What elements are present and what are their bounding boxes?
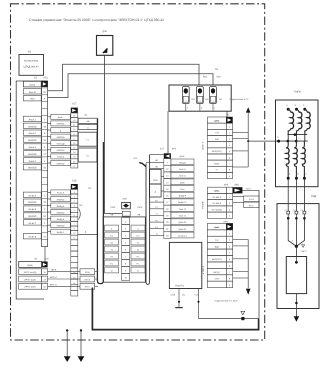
svg-text:ВДЛ: ВДЛ	[215, 245, 220, 248]
svg-text:220V: 220V	[110, 206, 116, 209]
svg-text:ПЭД: ПЭД	[311, 195, 317, 198]
svg-text:Цепь: Цепь	[214, 119, 220, 122]
svg-text:Ан.вх.5: Ан.вх.5	[57, 192, 65, 195]
svg-text:ANGND: ANGND	[57, 198, 65, 201]
terminal table XP3/X5V	[207, 183, 242, 218]
svg-text:Е11: Е11	[182, 293, 185, 296]
svg-text:Х29: Х29	[122, 198, 127, 201]
svg-text:Анал.3: Анал.3	[29, 146, 37, 149]
wire 220V from Q30 down to X29	[104, 55, 122, 213]
svg-text:RS-С: RS-С	[249, 204, 254, 207]
svg-text:ANGND: ANGND	[28, 125, 37, 128]
vertical label RS-485	[201, 201, 204, 209]
svg-text:Ан.вх.8: Ан.вх.8	[28, 236, 36, 239]
svg-text:Х27: Х27	[160, 147, 165, 150]
svg-text:Анал.4: Анал.4	[29, 160, 37, 163]
svg-text:Х17: Х17	[72, 102, 77, 105]
svg-text:Ан.вх.6: Ан.вх.6	[28, 208, 36, 211]
svg-text:ТМПН: ТМПН	[294, 91, 302, 94]
circuit breaker Q30	[97, 30, 113, 56]
svg-text:С3: С3	[301, 209, 303, 212]
svg-text:ВыВр.7: ВыВр.7	[57, 231, 65, 234]
TMSP ground line with arrow	[294, 294, 300, 322]
svg-text:RS-В: RS-В	[85, 271, 91, 274]
svg-text:ANGND: ANGND	[28, 201, 37, 204]
wire from X2 table to X20	[44, 247, 46, 262]
svg-text:КЛ18: КЛ18	[171, 293, 175, 296]
svg-text:RS-485-В: RS-485-В	[212, 202, 221, 205]
svg-text:Е10: Е10	[195, 293, 198, 296]
wire A2 to X27 header	[167, 111, 169, 153]
svg-text:Q: Q	[137, 269, 139, 272]
title text	[29, 18, 164, 22]
svg-text:Контроллер: Контроллер	[24, 60, 39, 63]
X18 right labels KU and Z	[78, 187, 98, 235]
TMPN primary winding В	[295, 104, 302, 141]
wires to TMSP junction	[288, 218, 307, 256]
svg-text:С2: С2	[293, 209, 295, 212]
sensor TMSP box	[286, 257, 306, 294]
terminal table X2/X23 on A1	[23, 81, 47, 247]
svg-text:Двкл.Р1: Двкл.Р1	[179, 228, 188, 231]
svg-text:КУ: КУ	[80, 204, 83, 207]
wire bus pair (cable loop)	[146, 155, 150, 285]
svg-text:Твкл.Т1: Твкл.Т1	[179, 215, 187, 218]
svg-text:ТМСП: ТМСП	[301, 250, 307, 253]
svg-text:Анал.2: Анал.2	[29, 132, 37, 135]
armored power cable (thick route)	[92, 288, 258, 330]
svg-text:Ан.вх.7: Ан.вх.7	[28, 222, 36, 225]
svg-text:RS-А: RS-А	[246, 187, 251, 190]
transformer TMPN box	[276, 91, 319, 187]
svg-text:ANGND: ANGND	[57, 149, 65, 152]
svg-text:ANGND: ANGND	[57, 162, 65, 165]
sensor designators	[187, 98, 223, 110]
station boundary (dash-dot border)	[11, 4, 265, 340]
controller A1 box	[19, 51, 44, 76]
svg-text:RS-В: RS-В	[249, 198, 254, 201]
svg-text:Темп.ж: Темп.ж	[57, 156, 65, 159]
TMPN primary winding С	[303, 104, 310, 141]
svg-text:RS+А: RS+А	[85, 278, 91, 281]
svg-text:Кслгтл: Кслгтл	[179, 168, 186, 171]
controller module outline	[16, 81, 47, 299]
svg-text:Ан.вых.1: Ан.вых.1	[178, 234, 187, 237]
connector X27/XP1	[160, 147, 194, 238]
TMPN primary winding А	[286, 104, 293, 141]
svg-text:ИРПС-исх(Д): ИРПС-исх(Д)	[24, 271, 37, 274]
sensor symbol VD1	[197, 87, 204, 112]
svg-text:ANGND: ANGND	[28, 215, 37, 218]
wire Rsu M from X23 to A2	[48, 64, 199, 91]
wire RS-485 shield route	[199, 190, 260, 318]
svg-text:RS+(ОБЩ): RS+(ОБЩ)	[212, 208, 222, 211]
X27 left wires to bus	[146, 159, 164, 235]
svg-text:ВыВр.Р: ВыВр.Р	[179, 195, 187, 198]
svg-text:Цепь: Цепь	[179, 155, 185, 158]
svg-text:RS-485: RS-485	[201, 201, 204, 209]
svg-text:ANGND: ANGND	[28, 167, 37, 170]
svg-text:Деап.: Деап.	[58, 116, 64, 119]
svg-text:ХР4: ХР4	[223, 220, 228, 223]
svg-text:ВКЛ(ОГР): ВКЛ(ОГР)	[212, 258, 222, 261]
wires XP3 RS-485 to PED cable	[233, 187, 259, 207]
svg-text:Станция управления "Электон-05: Станция управления "Электон-05.000Б" с к…	[29, 18, 164, 22]
telemetry unit TMSP-3 box	[169, 242, 201, 288]
svg-text:ANGND: ANGND	[28, 139, 37, 142]
X17 right relay boxes P1	[78, 114, 98, 162]
svg-text:Rsu M: Rsu M	[29, 91, 36, 94]
svg-text:ВыВр.5: ВыВр.5	[57, 205, 65, 208]
X17 left signal labels	[48, 114, 71, 165]
sensor symbol VD2	[210, 87, 217, 112]
label box 220V on bus	[149, 169, 163, 184]
svg-text:ЦТКД 060.42: ЦТКД 060.42	[24, 66, 40, 69]
terminal table XP4	[207, 220, 232, 287]
PED terminals C1 C2 C3	[284, 209, 305, 220]
svg-text:ВРС+С: ВРС+С	[50, 283, 57, 286]
svg-text:Q30: Q30	[102, 30, 107, 33]
wire A2 to XP5	[226, 111, 228, 117]
svg-text:ХР3: ХР3	[224, 183, 229, 186]
connector S1/X20 table	[19, 257, 50, 289]
svg-text:220V: 220V	[137, 206, 143, 209]
connector X29 table	[103, 198, 145, 283]
svg-text:Rsu: Rsu	[203, 75, 208, 78]
wires XP5 to SU arrow	[230, 98, 251, 167]
wire VD2 from X23 to A2	[48, 74, 213, 98]
svg-text:ИРПС-вх(Л): ИРПС-вх(Л)	[24, 278, 36, 281]
svg-text:ИРПС-вх(К): ИРПС-вх(К)	[24, 286, 36, 289]
svg-text:VD2: VD2	[216, 75, 221, 78]
svg-text:Х5В: Х5В	[234, 183, 239, 186]
net flag KP1 (cable start hook)	[134, 157, 146, 167]
svg-text:ТМСП-3: ТМСП-3	[175, 285, 184, 288]
svg-text:ANGND: ANGND	[57, 136, 65, 139]
label box Z on bus	[149, 184, 163, 197]
grounding electrodes KL18 E11 E10	[171, 289, 200, 319]
svg-text:Анал.1: Анал.1	[29, 118, 37, 121]
svg-text:ANGND: ANGND	[57, 211, 65, 214]
wires TMPN to PED	[288, 178, 304, 211]
svg-text:ХР1: ХР1	[172, 147, 177, 150]
TMPN secondary winding В	[294, 141, 299, 180]
wire X27 header to bus	[150, 154, 164, 156]
svg-text:Подключение к СУ: Подключение к СУ	[230, 98, 250, 101]
motor PED box	[277, 195, 319, 309]
svg-text:ВыВр.УТ: ВыВр.УТ	[178, 201, 187, 204]
svg-text:Х23: Х23	[43, 77, 48, 80]
X18 left signal labels	[48, 190, 71, 234]
connector strip continuation cells	[71, 240, 78, 296]
svg-text:Твкл.Т3: Твкл.Т3	[179, 208, 187, 211]
svg-text:к БСП-3: к БСП-3	[202, 141, 205, 150]
svg-text:RS-С: RS-С	[85, 286, 91, 289]
svg-text:Двкл.Р3: Двкл.Р3	[179, 221, 188, 224]
svg-text:ВКЛ2: ВКЛ2	[214, 163, 220, 166]
svg-text:220V: 220V	[180, 181, 185, 184]
junction to armored cable	[241, 311, 245, 320]
TMPN star links	[277, 133, 308, 142]
svg-text:Темп.Дв: Темп.Дв	[56, 143, 65, 146]
svg-text:Ан.вх.5: Ан.вх.5	[28, 194, 36, 197]
svg-text:ВКЛ(ОГР): ВКЛ(ОГР)	[212, 150, 222, 153]
svg-text:RuD: RuD	[215, 138, 220, 141]
svg-text:Подключение ТК, БСЛ: Подключение ТК, БСЛ	[215, 300, 238, 303]
svg-text:ANGND: ANGND	[57, 224, 65, 227]
svg-text:Q: Q	[111, 269, 113, 272]
sensor block A2	[169, 68, 231, 111]
labels X2 X23	[34, 77, 48, 80]
wire 0 to TMPN	[247, 140, 278, 142]
ground arrow right	[78, 329, 85, 362]
svg-text:VD2: VD2	[30, 98, 35, 101]
RS-485 wires X20 to X19	[48, 269, 99, 289]
TMPN secondary winding С	[302, 141, 307, 180]
svg-text:RS-485-А: RS-485-А	[212, 196, 221, 199]
svg-text:+24V: +24V	[214, 277, 220, 280]
svg-text:ВРС+Л: ВРС+Л	[50, 276, 57, 279]
svg-text:Общая: Общая	[179, 161, 186, 164]
vertical label k BSP-3	[202, 141, 205, 150]
svg-text:С1: С1	[284, 209, 286, 212]
sensor symbol Rsu	[182, 87, 189, 112]
svg-text:485-В: 485-В	[51, 269, 57, 272]
connector X18	[71, 180, 78, 240]
connector X17	[71, 102, 78, 168]
wires XP4 to TK BSL arrow	[215, 240, 251, 303]
svg-text:Цепь: Цепь	[214, 190, 220, 193]
svg-text:ANGND: ANGND	[28, 153, 37, 156]
svg-text:Кслгтл: Кслгтл	[179, 175, 186, 178]
svg-text:Цепь: Цепь	[214, 226, 220, 229]
terminal table XP5	[208, 113, 233, 178]
svg-text:Х18: Х18	[72, 180, 77, 183]
TMPN secondary winding А	[286, 141, 291, 180]
cable loop X19	[97, 119, 103, 284]
svg-text:А1: А1	[28, 51, 32, 54]
ground arrow left	[64, 329, 71, 362]
vertical label k TMS-3	[202, 265, 205, 274]
svg-text:220V: 220V	[153, 179, 159, 182]
svg-text:УАПД-Т: УАПД-Т	[213, 271, 221, 274]
svg-text:Цепь: Цепь	[29, 84, 35, 87]
svg-text:ВыВр.6: ВыВр.6	[57, 218, 65, 221]
svg-text:ANGND: ANGND	[57, 123, 65, 126]
svg-text:к ТМС-3: к ТМС-3	[202, 265, 205, 274]
svg-text:Цепь: Цепь	[27, 264, 33, 267]
